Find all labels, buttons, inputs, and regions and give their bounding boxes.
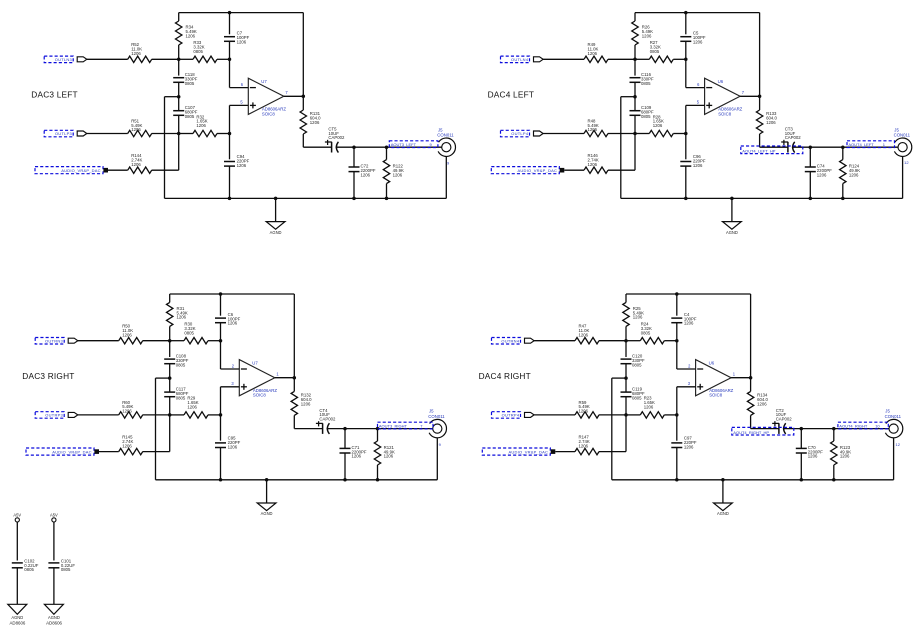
- svg-text:1206: 1206: [177, 315, 187, 320]
- svg-text:U7: U7: [261, 79, 267, 84]
- svg-text:1206: 1206: [393, 172, 403, 177]
- svg-text:1206: 1206: [693, 39, 703, 44]
- svg-text:1206: 1206: [684, 444, 694, 449]
- svg-text:0805: 0805: [632, 395, 642, 400]
- svg-text:0805: 0805: [61, 567, 71, 572]
- svg-text:12: 12: [904, 160, 909, 165]
- svg-text:AUDIO_VR&P_DAC: AUDIO_VR&P_DAC: [509, 449, 549, 454]
- svg-text:0805: 0805: [641, 81, 651, 86]
- svg-text:CON011: CON011: [428, 414, 445, 419]
- svg-text:AOUT4_LEFT: AOUT4_LEFT: [848, 142, 874, 147]
- svg-text:0805: 0805: [185, 81, 195, 86]
- svg-text:OUTRP3: OUTRP3: [45, 413, 63, 418]
- svg-text:1206: 1206: [228, 321, 238, 326]
- svg-text:A5V: A5V: [50, 513, 58, 518]
- svg-text:CAP002: CAP002: [328, 135, 345, 140]
- svg-text:0805: 0805: [176, 395, 186, 400]
- svg-text:OUTLN4: OUTLN4: [511, 57, 529, 62]
- svg-text:AGND: AGND: [270, 230, 282, 235]
- svg-text:1206: 1206: [579, 332, 589, 337]
- svg-text:1206: 1206: [653, 123, 663, 128]
- svg-text:0805: 0805: [641, 330, 651, 335]
- svg-text:AUDIO_VR&P_DAC: AUDIO_VR&P_DAC: [52, 449, 92, 454]
- svg-text:1206: 1206: [122, 443, 132, 448]
- svg-text:DAC3 LEFT: DAC3 LEFT: [31, 90, 78, 100]
- svg-text:AOUT4_RIGHT_HP: AOUT4_RIGHT_HP: [733, 430, 769, 435]
- svg-text:1206: 1206: [237, 39, 247, 44]
- svg-text:OUTLN3: OUTLN3: [55, 57, 73, 62]
- svg-text:AOUT3_LEFT: AOUT3_LEFT: [391, 142, 417, 147]
- svg-text:1206: 1206: [579, 443, 589, 448]
- svg-text:1206: 1206: [588, 162, 598, 167]
- svg-text:1206: 1206: [301, 401, 311, 406]
- svg-text:1206: 1206: [766, 120, 776, 125]
- svg-text:SOIC8: SOIC8: [253, 393, 267, 398]
- svg-text:OUTLP4: OUTLP4: [511, 131, 529, 136]
- svg-text:U6: U6: [718, 79, 724, 84]
- svg-text:1206: 1206: [693, 163, 703, 168]
- svg-text:1206: 1206: [579, 409, 589, 414]
- svg-text:SOIC8: SOIC8: [718, 111, 732, 116]
- svg-text:1206: 1206: [808, 454, 818, 459]
- svg-text:AGND: AGND: [48, 615, 60, 620]
- svg-text:A5V: A5V: [13, 513, 21, 518]
- svg-text:AD8606: AD8606: [46, 621, 62, 626]
- svg-text:0805: 0805: [650, 49, 660, 54]
- svg-text:AOUT4_RIGHT: AOUT4_RIGHT: [839, 424, 868, 429]
- svg-text:0805: 0805: [641, 114, 651, 119]
- svg-text:DAC4 RIGHT: DAC4 RIGHT: [479, 371, 531, 381]
- svg-text:1206: 1206: [131, 162, 141, 167]
- svg-text:1206: 1206: [588, 51, 598, 56]
- svg-text:AGND: AGND: [726, 230, 738, 235]
- svg-text:1206: 1206: [187, 404, 197, 409]
- svg-text:DAC4 LEFT: DAC4 LEFT: [488, 90, 535, 100]
- svg-text:AUDIO_VR&P_DAC: AUDIO_VR&P_DAC: [61, 168, 101, 173]
- svg-text:1206: 1206: [228, 444, 238, 449]
- svg-text:CON011: CON011: [894, 133, 911, 138]
- svg-text:10: 10: [875, 424, 880, 429]
- svg-text:1206: 1206: [352, 454, 362, 459]
- svg-text:1206: 1206: [840, 454, 850, 459]
- svg-text:AD8606: AD8606: [10, 621, 26, 626]
- svg-text:CON011: CON011: [885, 414, 902, 419]
- svg-text:AGND: AGND: [261, 511, 273, 516]
- svg-text:0805: 0805: [185, 114, 195, 119]
- svg-text:AGND: AGND: [717, 511, 729, 516]
- svg-text:1206: 1206: [122, 332, 132, 337]
- svg-text:1206: 1206: [849, 172, 859, 177]
- svg-text:1206: 1206: [817, 172, 827, 177]
- svg-text:CAP002: CAP002: [776, 417, 793, 422]
- svg-text:AUDIO_VR&P_DAC: AUDIO_VR&P_DAC: [518, 168, 558, 173]
- svg-text:1206: 1206: [310, 120, 320, 125]
- svg-text:SOIC8: SOIC8: [709, 393, 723, 398]
- svg-text:1206: 1206: [122, 409, 132, 414]
- svg-text:0805: 0805: [632, 362, 642, 367]
- svg-text:12: 12: [896, 442, 901, 447]
- svg-text:0805: 0805: [193, 49, 203, 54]
- svg-text:1206: 1206: [644, 404, 654, 409]
- svg-text:1206: 1206: [757, 401, 767, 406]
- svg-text:0805: 0805: [176, 362, 186, 367]
- svg-text:CAP002: CAP002: [319, 417, 336, 422]
- svg-text:CAP002: CAP002: [785, 135, 802, 140]
- svg-text:0805: 0805: [24, 567, 34, 572]
- svg-text:1206: 1206: [642, 33, 652, 38]
- svg-text:1206: 1206: [131, 127, 141, 132]
- svg-text:DAC3 RIGHT: DAC3 RIGHT: [22, 371, 74, 381]
- svg-text:1206: 1206: [196, 123, 206, 128]
- svg-text:OUTRP4: OUTRP4: [502, 413, 520, 418]
- svg-text:1206: 1206: [361, 172, 371, 177]
- svg-text:0805: 0805: [184, 330, 194, 335]
- svg-text:1206: 1206: [131, 51, 141, 56]
- svg-text:SOIC8: SOIC8: [262, 111, 276, 116]
- svg-text:OUTRN3: OUTRN3: [45, 338, 63, 343]
- svg-text:AOUT3_RIGHT: AOUT3_RIGHT: [379, 424, 408, 429]
- svg-text:OUTRN4: OUTRN4: [501, 338, 519, 343]
- svg-text:1206: 1206: [684, 321, 694, 326]
- svg-text:OUTLP3: OUTLP3: [55, 131, 73, 136]
- svg-text:AGND: AGND: [11, 615, 23, 620]
- svg-text:U6: U6: [709, 361, 715, 366]
- svg-text:1206: 1206: [237, 163, 247, 168]
- svg-text:1206: 1206: [384, 454, 394, 459]
- svg-text:CON011: CON011: [437, 133, 454, 138]
- svg-text:AOUT4_LEFT_HP: AOUT4_LEFT_HP: [742, 148, 775, 153]
- svg-text:1206: 1206: [186, 33, 196, 38]
- svg-text:1206: 1206: [588, 127, 598, 132]
- svg-text:U7: U7: [252, 361, 258, 366]
- svg-text:1206: 1206: [633, 315, 643, 320]
